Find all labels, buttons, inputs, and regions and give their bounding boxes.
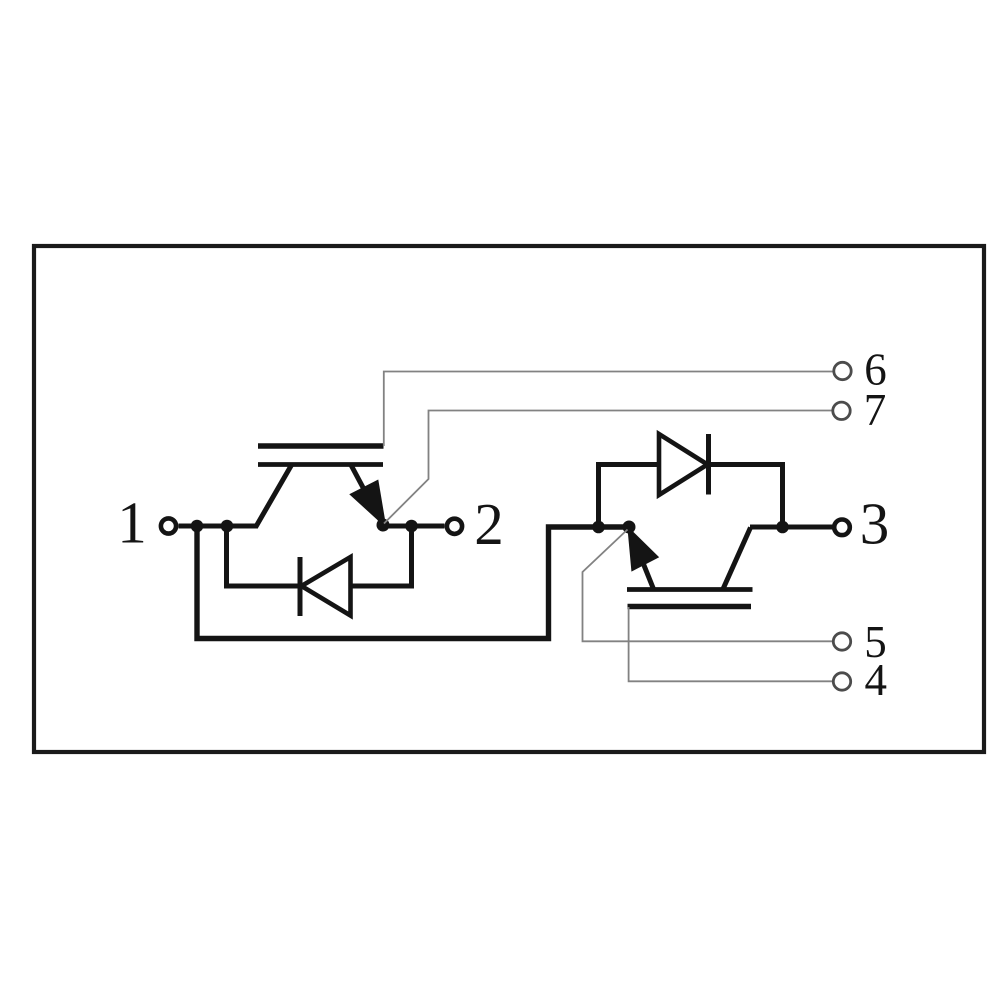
D1 horizontal wire	[227, 584, 412, 589]
node junction dot (x=782.5)	[776, 521, 789, 534]
Q2 collector lead	[723, 528, 751, 590]
diode D1 (anti-parallel, left)	[227, 526, 412, 616]
wire: Q2 collector to terminal 3	[750, 525, 833, 530]
D1 anode-side drop wire	[409, 526, 414, 589]
D2 cathode-side riser wire	[780, 462, 785, 527]
terminal 3	[834, 491, 889, 557]
D2 triangle	[659, 434, 708, 495]
node junction dot on rail (x=197)	[191, 520, 204, 533]
node junction dot on rail (x=227)	[221, 520, 234, 533]
Q2 gate bar	[628, 604, 752, 610]
Q2 channel bar	[627, 587, 753, 592]
D1 cathode bar	[298, 557, 303, 616]
Q1 gate bar	[258, 443, 384, 449]
wire: node 1 rail down, bottom run, up to phase rail	[197, 526, 629, 639]
Q1 emitter lead	[351, 465, 383, 525]
Q2 emitter lead	[629, 528, 654, 589]
module outline box	[34, 246, 984, 752]
terminal 2	[447, 491, 504, 557]
terminal 5	[833, 617, 886, 667]
terminal 7	[833, 385, 886, 435]
wire: emitter node to terminal 2	[383, 524, 445, 529]
transistor Q2 (right IGBT)	[627, 528, 753, 607]
svg-text:1: 1	[117, 490, 147, 556]
node junction dot (x=411.5)	[405, 520, 418, 533]
D2 horizontal wire	[599, 462, 783, 467]
terminal 4	[833, 655, 887, 705]
transistor Q1 (left IGBT)	[256, 446, 385, 527]
node junction dot (x=598.5)	[592, 521, 605, 534]
D2 anode-side riser wire	[596, 462, 601, 527]
terminal 1	[117, 490, 176, 556]
wire: Q2 gate to pin 4 (thin)	[629, 607, 833, 681]
svg-text:3: 3	[860, 491, 890, 557]
svg-text:2: 2	[474, 491, 504, 557]
terminal 6	[834, 345, 887, 395]
D1 cathode-side drop wire	[224, 526, 229, 589]
Q1 emitter arrow	[351, 481, 385, 526]
wire: Q2 aux emitter to pin 5 (thin)	[583, 530, 833, 642]
diode D2 (anti-parallel, right)	[599, 434, 783, 527]
Q2 emitter arrow	[629, 529, 658, 571]
D1 triangle	[302, 557, 351, 616]
Q1 channel bar	[258, 462, 383, 467]
svg-text:7: 7	[864, 385, 887, 435]
node: Q2 emitter junction (x=629)	[623, 521, 636, 534]
D2 cathode bar	[706, 434, 711, 495]
wire: Q1 aux emitter to pin 7 (thin)	[384, 411, 832, 524]
wire: terminal 1 to Q1 collector rail	[179, 524, 259, 529]
Q1 collector lead	[256, 465, 292, 527]
svg-text:4: 4	[865, 655, 888, 705]
node: Q1 emitter junction (x=383)	[377, 519, 390, 532]
wire: Q1 gate to pin 6 (thin)	[384, 372, 833, 447]
